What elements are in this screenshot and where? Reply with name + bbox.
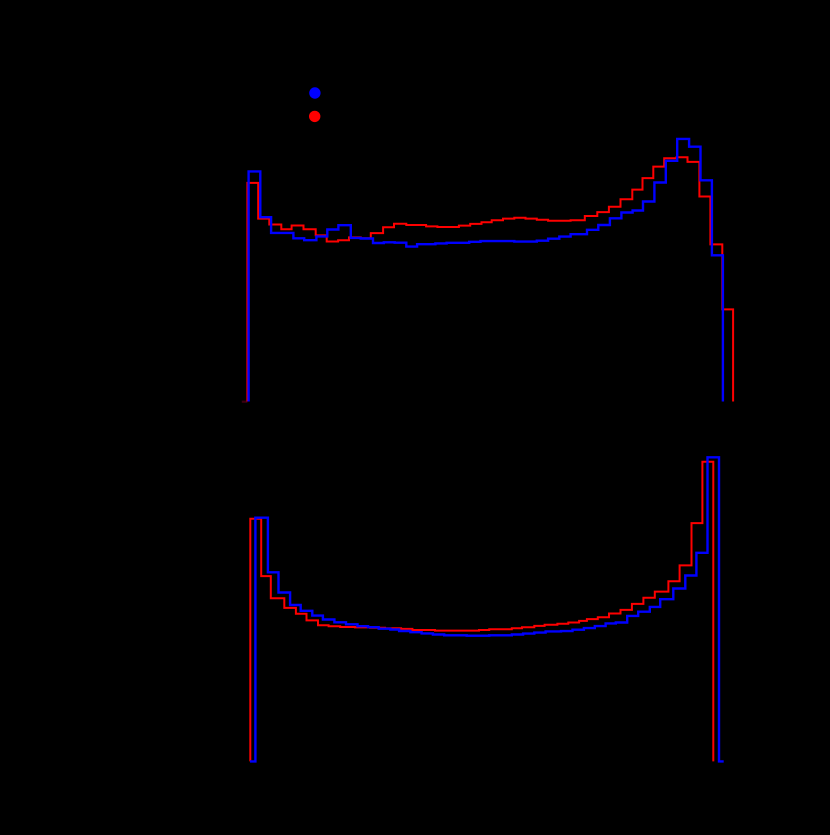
- legend red dot: [309, 111, 320, 122]
- bottom histogram red: [250, 462, 713, 762]
- bottom histogram blue: [250, 457, 724, 761]
- legend blue dot: [309, 87, 320, 98]
- top plot faint red baseline lead-in: [242, 401, 248, 403]
- top histogram red: [247, 157, 733, 401]
- top histogram blue: [249, 139, 723, 402]
